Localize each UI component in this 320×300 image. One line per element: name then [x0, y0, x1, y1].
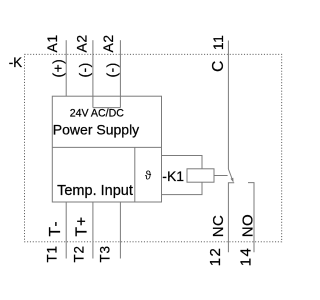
svg-text:A2: A2 [100, 34, 116, 52]
wire coil to contact [214, 175, 228, 177]
svg-text:12: 12 [207, 247, 224, 267]
power supply / temp input unit box U1 [52, 96, 161, 202]
wire T3 [119, 202, 121, 259]
wire C 11 [227, 41, 229, 170]
changeover contact movable arm [228, 169, 233, 181]
svg-text:T1: T1 [45, 245, 60, 262]
svg-text:NO: NO [239, 214, 256, 238]
wire A1 [65, 40, 67, 96]
wire A2 junction bar [93, 107, 121, 109]
svg-text:Temp. Input: Temp. Input [57, 183, 133, 199]
svg-text:-K: -K [9, 55, 23, 70]
svg-text:A2: A2 [73, 34, 89, 52]
svg-text:(-): (-) [76, 62, 92, 77]
svg-text:14: 14 [237, 247, 254, 267]
wire A2 (second) [119, 40, 121, 107]
divider line between sections [52, 146, 161, 148]
wire A2 (first) [92, 40, 94, 107]
svg-text:T3: T3 [98, 245, 113, 262]
svg-text:C: C [210, 61, 227, 72]
svg-text:(+): (+) [49, 59, 65, 78]
vertical divider in lower section [134, 147, 136, 202]
svg-text:T-: T- [47, 220, 64, 236]
svg-text:Power Supply: Power Supply [53, 122, 139, 138]
svg-text:A1: A1 [44, 34, 60, 52]
wire T1 [65, 202, 67, 259]
svg-text:T+: T+ [73, 216, 90, 237]
relay K1 box [162, 156, 203, 195]
svg-text:-K1: -K1 [162, 168, 184, 184]
relay coil K1 [187, 169, 214, 182]
svg-text:(-): (-) [103, 62, 119, 77]
svg-text:NC: NC [210, 215, 227, 238]
svg-text:11: 11 [211, 35, 226, 50]
dashed enclosure border -K [25, 54, 282, 242]
contact arrowhead [231, 178, 234, 183]
svg-text:ϑ: ϑ [145, 171, 152, 183]
svg-text:24V AC/DC: 24V AC/DC [70, 107, 125, 119]
wire T2 [92, 202, 94, 259]
NC fixed contact hook [228, 183, 234, 253]
NO fixed contact hook [248, 183, 254, 253]
svg-text:T2: T2 [72, 245, 87, 262]
